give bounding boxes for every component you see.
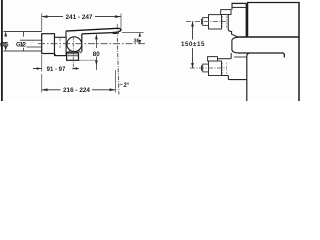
dimension 216-224 <box>42 88 116 91</box>
G1/2 pipe stub (left view) <box>20 40 42 47</box>
dimension 91-97 <box>33 67 79 69</box>
36 dimension <box>122 32 144 34</box>
handle cup flange (left view) <box>55 52 79 60</box>
handle cap circle (left view) <box>67 37 82 52</box>
Ø65 arrow up <box>4 32 7 37</box>
top eccentric body outline <box>228 15 237 37</box>
2 degree leader dash <box>120 83 123 85</box>
150+-15 dimension line <box>192 22 194 69</box>
bottom step line <box>218 58 232 60</box>
svg-text:80: 80 <box>93 51 100 58</box>
extension line right (spout tip) <box>120 14 122 29</box>
cup axis dash-dot <box>72 36 74 70</box>
bottom pipe stub <box>203 64 209 72</box>
spout (left view) <box>66 28 121 34</box>
union axis dash-dot tick <box>23 32 25 52</box>
aerator axis dash-dot <box>116 24 118 37</box>
bottom fitting body top <box>234 56 247 58</box>
mixer body (left view) <box>66 31 82 52</box>
80 leader from cup bottom <box>79 59 96 61</box>
wall rose Ø65 (left view) <box>42 34 55 54</box>
band top edge <box>238 36 299 38</box>
descending column left edge <box>247 53 250 101</box>
bottom eccentric body outline <box>222 76 247 80</box>
body column cap <box>232 3 247 9</box>
block left edge <box>247 2 249 37</box>
band bottom edge <box>238 53 284 57</box>
Ø65 top leader line <box>4 31 42 33</box>
svg-text:216 - 224: 216 - 224 <box>63 87 90 94</box>
union nut (left view) <box>55 37 67 55</box>
top pipe stub <box>203 18 209 26</box>
bottom fitting centerline <box>190 67 227 69</box>
bottom union nut <box>209 61 222 76</box>
block top edge <box>247 2 300 4</box>
bottom hidden thread lines <box>223 63 227 75</box>
Ø65 bottom leader line <box>4 50 42 52</box>
lever hint diagonal right <box>78 50 81 53</box>
2 degree axis dash-dot <box>117 38 119 95</box>
Ø65 arrow down <box>4 46 7 51</box>
svg-text:150±15: 150±15 <box>181 41 205 48</box>
top pipe cap <box>201 19 203 25</box>
nut axis dash-dot <box>59 38 61 49</box>
svg-text:91 - 97: 91 - 97 <box>47 67 66 73</box>
bottom tab <box>208 57 218 62</box>
svg-text:G1/2: G1/2 <box>16 43 27 49</box>
aerator under spout tip <box>112 31 118 34</box>
block right edge (frame) <box>298 2 300 101</box>
dimension 241-247 line <box>42 15 122 18</box>
bottom pipe cap <box>201 65 203 71</box>
band left rounded end <box>232 37 238 53</box>
top tab (rose side view) <box>221 10 231 15</box>
80 dimension vertical <box>95 35 97 71</box>
top fitting centerline <box>186 21 226 23</box>
extension line left (rose face) <box>41 14 43 32</box>
main centerline (left view) <box>38 43 146 45</box>
top union nut <box>209 15 222 29</box>
top hidden thread lines <box>223 16 227 28</box>
svg-text:Ø65: Ø65 <box>0 43 9 49</box>
wall line (left view) <box>1 0 3 101</box>
svg-text:241 - 247: 241 - 247 <box>65 14 92 21</box>
bottom step vertical to band <box>230 53 232 59</box>
svg-text:2°: 2° <box>124 83 130 89</box>
lever hint diagonal left <box>68 50 71 53</box>
body column right edge <box>245 3 247 37</box>
